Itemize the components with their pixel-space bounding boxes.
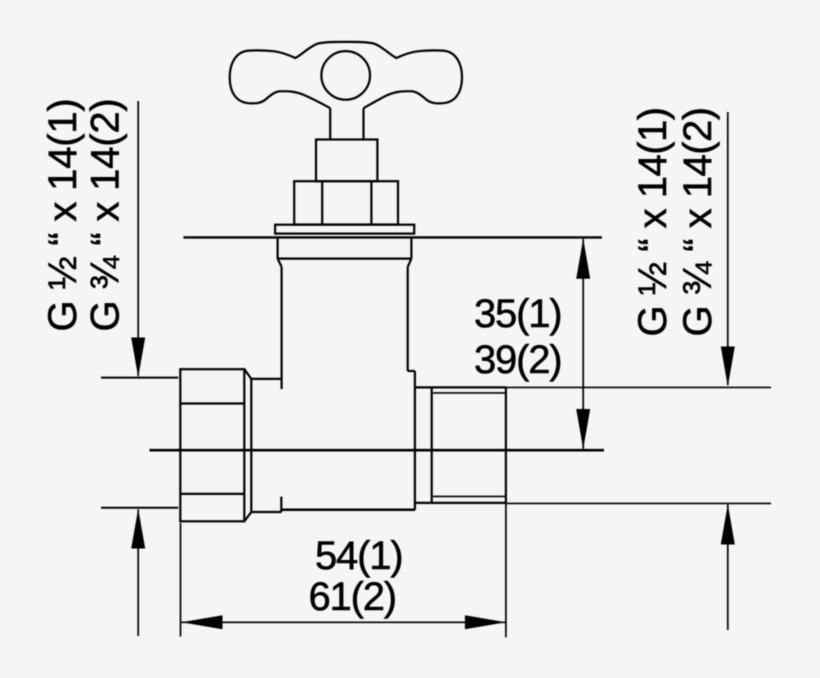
bonnet column left edge [281, 267, 283, 389]
hex facet line right [370, 181, 372, 224]
bonnet chamfer right [408, 259, 412, 267]
arrowhead right upper (down) [721, 347, 735, 387]
centerline [150, 449, 605, 452]
bonnet upper band bottom line [278, 258, 412, 260]
nut facet line lower [180, 493, 244, 495]
left thread dimension line lower [137, 510, 139, 637]
gland hex nut [294, 181, 398, 224]
right port end vertical [505, 387, 507, 503]
nut chamfer bottom [244, 512, 251, 521]
bonnet flange [275, 225, 414, 234]
left thread dimension line upper [137, 101, 139, 376]
body left lower tick [280, 497, 282, 512]
arrowhead 54-61 right [465, 615, 506, 629]
bonnet upper band right edge [410, 239, 412, 259]
flange datum line [183, 236, 602, 238]
arrowhead 35-39 bottom (down) [576, 409, 590, 449]
spindle stem right edge [362, 108, 364, 139]
svg-text:54(1): 54(1) [315, 534, 402, 578]
arrowhead left lower (up) [131, 509, 145, 549]
right thread dimension line upper [727, 112, 729, 385]
right collar edge [414, 371, 416, 510]
right port top thread inner line [433, 392, 506, 394]
svg-text:G ¾ “ x 14(2): G ¾ “ x 14(2) [83, 98, 127, 331]
spindle stem left edge [329, 108, 331, 139]
tailpiece bottom line [251, 511, 281, 513]
nut collar vertical [250, 379, 252, 512]
right port bottom thread inner line [433, 495, 506, 497]
height dimension line 35-39 [582, 239, 584, 449]
nut facet line upper [180, 402, 244, 404]
right extension line [505, 503, 507, 637]
arrowhead 54-61 left [182, 615, 223, 629]
left extension line [180, 523, 182, 637]
arrowhead right lower (up) [721, 504, 735, 544]
arrowhead left upper (down) [131, 338, 145, 378]
pipe line extension bottom right [506, 502, 771, 504]
bonnet upper band left edge [277, 239, 279, 259]
right port bottom outer line [415, 502, 506, 504]
right port left vertical [431, 387, 433, 503]
svg-text:G ¾ “ x 14(2): G ¾ “ x 14(2) [676, 107, 720, 336]
handwheel hub circle [321, 51, 370, 100]
width dimension line 54-61 [182, 621, 506, 623]
left thread tick lower [101, 507, 178, 509]
left thread tick upper [101, 377, 178, 379]
tailpiece top line [251, 378, 281, 380]
bonnet column right edge [407, 267, 409, 371]
nut chamfer top [244, 369, 251, 379]
union nut body [180, 369, 244, 521]
right port top outer line [415, 386, 506, 388]
svg-text:G ½ “ x 14(1): G ½ “ x 14(1) [41, 98, 85, 331]
hex facet line left [321, 181, 323, 224]
packing gland block [316, 140, 377, 182]
svg-text:35(1): 35(1) [474, 292, 561, 336]
right thread dimension line lower [727, 504, 729, 630]
valve body bottom line [281, 508, 415, 511]
svg-text:G ½ “ x 14(1): G ½ “ x 14(1) [631, 107, 675, 336]
bonnet chamfer left [278, 259, 282, 267]
pipe line extension top right [506, 386, 771, 388]
svg-text:61(2): 61(2) [309, 575, 396, 619]
handwheel W1 outline [230, 42, 462, 108]
right shoulder step [408, 370, 415, 372]
svg-text:39(2): 39(2) [474, 338, 561, 382]
arrowhead 35-39 top (up) [576, 239, 590, 279]
